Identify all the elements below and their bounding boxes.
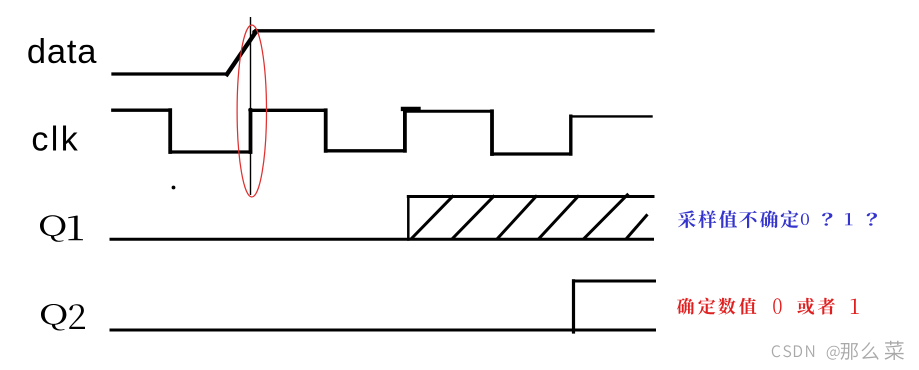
svg-text:clk: clk [31,121,80,159]
svg-text:data: data [27,33,97,71]
